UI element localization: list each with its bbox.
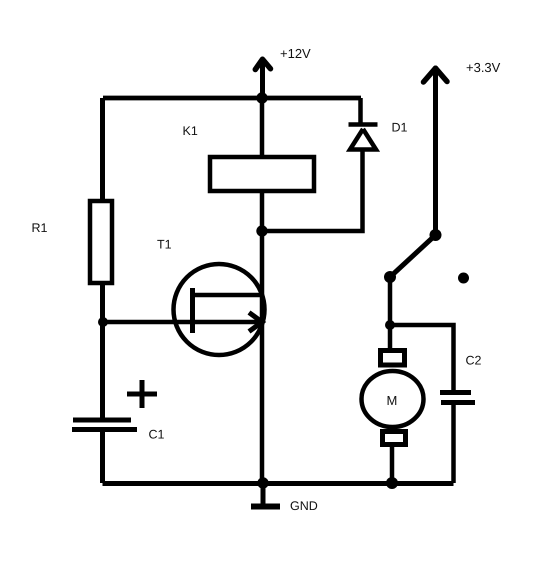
- power +12V arrow: [255, 59, 270, 98]
- node ground junction center: [257, 477, 268, 488]
- wire C2 bottom to ground rail: [451, 405, 456, 483]
- gate bar: [190, 288, 195, 333]
- body circle: [174, 264, 265, 355]
- switch blade: [390, 235, 436, 277]
- svg-text:C2: C2: [466, 354, 482, 368]
- svg-text:D1: D1: [392, 121, 408, 135]
- motor body: [362, 371, 424, 427]
- wire left vertical from rail to R1: [100, 98, 105, 200]
- switch pole node: [384, 271, 396, 283]
- wire motor bottom to ground rail: [390, 445, 395, 483]
- wire bottom ground rail: [103, 481, 454, 486]
- node junction top (+12V rail / relay): [256, 92, 267, 103]
- svg-text:M: M: [387, 393, 398, 408]
- wire switch pole down: [388, 277, 393, 325]
- svg-text:T1: T1: [157, 238, 172, 252]
- svg-text:+12V: +12V: [280, 46, 311, 61]
- wire collector vertical (relay bottom to ground): [260, 231, 265, 483]
- switch open contact node: [458, 273, 469, 284]
- drain line: [194, 293, 262, 298]
- node motor/C2 junction: [385, 320, 395, 330]
- wire motor top: [388, 325, 393, 350]
- switch common node: [430, 229, 442, 241]
- capacitor C1 plates: [72, 420, 137, 430]
- wire diode top: [358, 98, 363, 124]
- source/gate line with arrow: [103, 320, 258, 325]
- svg-text:GND: GND: [290, 499, 318, 513]
- capacitor C2 plates: [440, 393, 475, 403]
- wire gate node down to C1: [100, 322, 105, 419]
- motor bottom terminal cap: [383, 432, 406, 445]
- svg-text:C1: C1: [149, 428, 165, 442]
- ground symbol: [251, 483, 280, 507]
- wire relay bottom: [260, 191, 265, 231]
- node ground junction right: [386, 477, 398, 489]
- node junction relay bottom / diode branch: [256, 225, 267, 236]
- wire relay top: [260, 98, 265, 157]
- relay K1 coil: [210, 157, 314, 191]
- svg-text:R1: R1: [32, 221, 48, 235]
- transistor T1: [103, 264, 265, 355]
- motor M: [362, 351, 424, 445]
- node gate junction: [98, 317, 108, 327]
- diode D1: [349, 125, 378, 150]
- power +3.3V arrow: [424, 68, 448, 235]
- capacitor C1 polarity plus: [127, 380, 157, 408]
- wire R1 bottom to gate node: [100, 283, 105, 322]
- wire top horizontal +12V rail: [103, 96, 361, 101]
- wire C1 bottom to ground rail: [100, 432, 105, 483]
- wire to C2 branch: [390, 325, 454, 390]
- motor top terminal cap: [381, 351, 405, 366]
- svg-text:K1: K1: [183, 124, 198, 138]
- wire diode branch bottom: [262, 150, 363, 231]
- svg-text:+3.3V: +3.3V: [466, 60, 501, 75]
- resistor R1: [90, 201, 112, 283]
